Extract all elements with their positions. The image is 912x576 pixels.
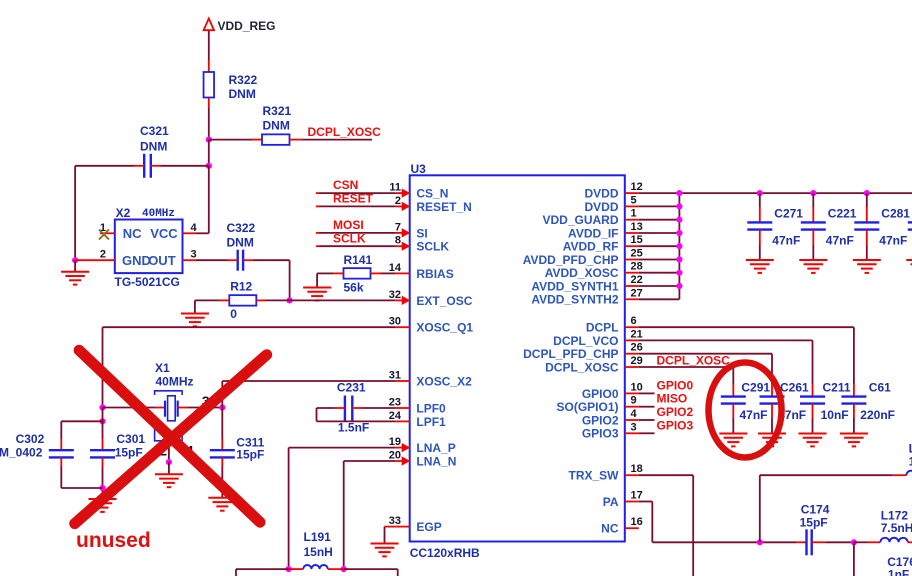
pin 20 LNA_N [389, 450, 457, 469]
svg-text:X1: X1 [155, 361, 170, 375]
svg-text:R322: R322 [229, 73, 258, 87]
capacitor C321 [144, 154, 151, 178]
capacitor C302 [49, 450, 74, 457]
svg-text:9: 9 [631, 395, 637, 407]
pin 24 LPF1 [389, 410, 446, 429]
svg-text:3: 3 [191, 249, 197, 261]
capacitor C311 [210, 450, 235, 457]
svg-text:OUT: OUT [148, 253, 176, 268]
pin 31 XOSC_X2 [389, 370, 472, 389]
svg-text:LPF1: LPF1 [416, 415, 446, 429]
svg-text:220nF: 220nF [860, 408, 895, 422]
node junction bus 12 [676, 190, 682, 196]
pin 15 AVDD_RF [563, 234, 643, 253]
svg-text:C211: C211 [823, 380, 851, 394]
wire C231 left loop to LPF1 [335, 407, 345, 409]
node junction X1 pin3 [219, 404, 225, 410]
capacitor C174 [807, 529, 812, 555]
op-amp U3 body CC120xRHB [410, 175, 625, 541]
ground under C291 [719, 434, 747, 447]
svg-text:XOSC_X2: XOSC_X2 [416, 374, 472, 388]
wire AVDD pin row 27 [639, 298, 680, 300]
wire C301 top [102, 408, 104, 440]
svg-text:C302: C302 [16, 432, 45, 446]
svg-text:DNM: DNM [227, 236, 254, 250]
svg-text:14: 14 [389, 262, 402, 274]
wire AVDD pin row 1 [639, 219, 680, 221]
wire R322 to junction [208, 98, 210, 109]
svg-text:29: 29 [631, 355, 643, 367]
svg-text:30: 30 [389, 316, 401, 328]
svg-text:4: 4 [191, 222, 198, 234]
node junction L172/C176 [851, 539, 857, 545]
wire XOSC_X2 net [221, 381, 223, 408]
ground under C211 [799, 434, 827, 447]
wire C322 to EXT_OSC junction [228, 259, 238, 261]
svg-text:15nH: 15nH [304, 545, 333, 559]
pin 7 SI [395, 221, 428, 240]
svg-text:LNA_P: LNA_P [416, 441, 455, 455]
svg-text:DVDD: DVDD [584, 200, 618, 214]
svg-text:13: 13 [631, 221, 643, 233]
wire DVDD bus horizontal [639, 192, 912, 194]
svg-text:VDD_REG: VDD_REG [218, 19, 276, 33]
svg-text:GPIO3: GPIO3 [657, 418, 694, 432]
pin 11 CS_N [389, 182, 448, 201]
svg-text:LPF0: LPF0 [416, 401, 446, 415]
pin 5 DVDD [584, 194, 638, 213]
capacitor C291 [721, 380, 771, 433]
svg-text:DCPL: DCPL [586, 321, 619, 335]
node junction bus 15 [676, 243, 682, 249]
node junction C321/VCC [206, 163, 212, 169]
svg-text:40MHz: 40MHz [142, 208, 175, 220]
svg-text:C271: C271 [774, 207, 803, 221]
pin 17 PA [603, 490, 643, 509]
svg-text:24: 24 [389, 410, 402, 422]
wire EGP to ground [385, 526, 396, 528]
wire LNA_P net [289, 447, 396, 449]
no-connect X on pin 1 [99, 230, 109, 240]
svg-text:NC: NC [123, 226, 142, 241]
wire C176 down [853, 542, 855, 576]
svg-text:26: 26 [631, 342, 643, 354]
svg-text:15pF: 15pF [236, 447, 264, 461]
wire C174 right [812, 541, 826, 543]
net stub GPIO3 [639, 432, 655, 434]
svg-text:3: 3 [631, 421, 637, 433]
pin 33 EGP [389, 515, 442, 534]
capacitor C231 [345, 396, 352, 421]
wire DCPL net y353 [639, 353, 772, 355]
node junction RF branch [757, 539, 763, 545]
pin 1 X2 NC [100, 232, 115, 234]
pin 26 DCPL_PFD_CHP [523, 342, 643, 361]
svg-text:TRX_SW: TRX_SW [568, 469, 619, 483]
net RESET wire [316, 192, 396, 207]
net CSN wire [316, 178, 396, 193]
net stub GPIO0 [639, 392, 655, 394]
svg-text:CC120xRHB: CC120xRHB [410, 546, 480, 560]
svg-text:15: 15 [631, 234, 643, 246]
wire R141 left to ground [333, 272, 344, 274]
wire VDD_REG to R322 [208, 31, 210, 60]
svg-text:10: 10 [631, 381, 643, 393]
svg-text:7.5nH: 7.5nH [881, 521, 912, 535]
svg-text:U3: U3 [411, 162, 427, 176]
wire AVDD pin row 25 [639, 259, 680, 261]
wire AVDD pin row 13 [639, 232, 680, 234]
pin 3 X2 OUT wire [183, 259, 197, 261]
svg-text:CSN: CSN [333, 178, 358, 192]
svg-text:AVDD_PFD_CHP: AVDD_PFD_CHP [523, 253, 619, 267]
svg-text:C61: C61 [869, 380, 891, 394]
svg-text:C281: C281 [881, 207, 910, 221]
wire EXT_OSC [290, 299, 396, 301]
svg-text:16: 16 [631, 516, 643, 528]
wire C301 bottom to ground [102, 457, 104, 467]
svg-text:0: 0 [230, 307, 237, 321]
svg-text:C291: C291 [741, 380, 770, 394]
svg-text:C301: C301 [116, 432, 145, 446]
svg-text:C321: C321 [140, 124, 169, 138]
svg-text:8: 8 [395, 235, 401, 247]
svg-text:DNM: DNM [140, 140, 167, 154]
svg-text:GPIO2: GPIO2 [582, 413, 619, 427]
svg-text:EGP: EGP [416, 520, 441, 534]
wire LPF0 to C231 [352, 407, 362, 409]
ground under C281 [853, 260, 881, 273]
svg-text:TG-5021CG: TG-5021CG [115, 275, 180, 289]
svg-text:L191: L191 [304, 530, 332, 544]
wire X1 left [103, 407, 156, 409]
svg-text:R141: R141 [344, 253, 373, 267]
svg-text:XOSC_Q1: XOSC_Q1 [416, 321, 473, 335]
svg-text:GPIO0: GPIO0 [582, 387, 619, 401]
svg-text:32: 32 [389, 289, 401, 301]
svg-text:PA: PA [603, 495, 619, 509]
capacitor C221 [801, 190, 857, 260]
net MOSI wire [316, 218, 396, 233]
capacitor C2x partial at right edge [908, 222, 912, 229]
oscillator X2 body [115, 220, 183, 274]
net stub MISO [639, 406, 655, 408]
pin 3 GPIO3 [582, 421, 639, 440]
svg-text:R321: R321 [263, 104, 292, 118]
svg-text:L17: L17 [909, 442, 912, 456]
wire RF branch up [759, 475, 761, 542]
wire C311 top [221, 408, 223, 440]
node junction bus 28 [676, 270, 682, 276]
svg-text:6: 6 [631, 315, 637, 327]
wire PA net [639, 501, 653, 503]
pin 28 AVDD_XOSC [545, 261, 643, 280]
svg-text:5: 5 [631, 194, 637, 206]
wire XOSC_Q1 net [103, 326, 396, 328]
net SCLK wire [316, 231, 396, 246]
wire DCPL net y340 [639, 339, 813, 341]
unused cross mark X [75, 350, 267, 523]
highlight ellipse around C291 [709, 363, 782, 458]
svg-text:RESET: RESET [333, 192, 374, 206]
pin 18 TRX_SW [568, 463, 642, 482]
svg-text:CS_N: CS_N [416, 187, 448, 201]
svg-text:1nF: 1nF [888, 567, 909, 576]
svg-text:AVDD_RF: AVDD_RF [563, 240, 619, 254]
pin 13 AVDD_IF [568, 221, 643, 240]
svg-text:10nF: 10nF [821, 408, 849, 422]
wire C321 right [151, 165, 161, 167]
svg-text:19: 19 [389, 436, 401, 448]
svg-text:C261: C261 [780, 380, 809, 394]
wire X1 right [178, 407, 188, 409]
ground under X1 [155, 474, 183, 487]
pin 16 NC [601, 516, 643, 535]
ground under C301 [89, 499, 117, 512]
wire AVDD pin row 15 [639, 245, 680, 247]
node junction X2 GND [72, 257, 78, 263]
pin 25 AVDD_PFD_CHP [523, 248, 643, 267]
svg-text:AVDD_IF: AVDD_IF [568, 226, 618, 240]
pin 32 EXT_OSC [389, 289, 473, 308]
crystal X1 [155, 391, 183, 441]
svg-text:31: 31 [389, 370, 401, 382]
svg-text:AVDD_SYNTH1: AVDD_SYNTH1 [531, 279, 618, 293]
capacitor C61 [841, 380, 895, 433]
wire R12 right to junction [256, 299, 266, 301]
resistor R12 [229, 295, 256, 306]
power symbol VDD_REG [204, 19, 214, 31]
svg-text:GND: GND [122, 253, 151, 268]
svg-text:DNM: DNM [263, 119, 290, 133]
svg-text:AVDD_XOSC: AVDD_XOSC [545, 266, 619, 280]
wire junction to R321 [209, 139, 252, 141]
wire AVDD pin row 28 [639, 272, 680, 274]
wire junction to ground [74, 260, 76, 272]
svg-text:VDD_GUARD: VDD_GUARD [542, 213, 618, 227]
svg-text:C174: C174 [801, 503, 830, 517]
node junction R321/R322 [206, 137, 212, 143]
ground under EGP [371, 544, 399, 557]
pin 6 DCPL [586, 315, 639, 334]
ground partial at right edge [906, 260, 912, 273]
svg-text:2: 2 [395, 195, 401, 207]
capacitor C301 [90, 450, 115, 457]
ground under R141 [303, 288, 331, 301]
node junction X1 pin1 [99, 404, 105, 410]
wire AVDD pin row 22 [639, 285, 680, 287]
svg-text:56k: 56k [344, 281, 364, 295]
svg-text:7: 7 [395, 221, 401, 233]
svg-text:GPIO0: GPIO0 [657, 378, 694, 392]
svg-text:SM_0402: SM_0402 [0, 446, 43, 460]
svg-text:VCC: VCC [150, 226, 178, 241]
svg-text:4: 4 [631, 408, 638, 420]
svg-text:40MHz: 40MHz [156, 375, 194, 389]
inductor L172 [854, 541, 868, 543]
ground under C261 [758, 434, 786, 447]
svg-text:C231: C231 [337, 381, 366, 395]
wire AVDD bus vertical [678, 193, 680, 299]
wire AVDD pin row 5 [639, 205, 680, 207]
capacitor C261 [760, 380, 810, 433]
svg-text:GPIO2: GPIO2 [657, 405, 694, 419]
svg-text:RBIAS: RBIAS [416, 267, 453, 281]
pin 19 LNA_P [389, 436, 456, 455]
resistor R141 [344, 268, 371, 279]
capacitor C281 [854, 190, 910, 260]
wire RF top to L1 edge [760, 474, 893, 476]
svg-text:GPIO3: GPIO3 [582, 427, 619, 441]
node junction bus 1 [676, 217, 682, 223]
svg-text:47nF: 47nF [826, 234, 854, 248]
pin 10 GPIO0 [582, 381, 643, 400]
node junction bus 25 [676, 256, 682, 262]
node junction C302 branch [99, 418, 105, 424]
svg-text:DCPL_XOSC: DCPL_XOSC [545, 360, 619, 374]
ground under R12 [181, 314, 209, 327]
svg-text:47nF: 47nF [740, 408, 768, 422]
svg-text:AVDD_SYNTH2: AVDD_SYNTH2 [531, 293, 618, 307]
svg-text:23: 23 [389, 397, 401, 409]
svg-text:47nF: 47nF [772, 234, 800, 248]
pin 4 GPIO2 [582, 408, 639, 427]
wire VCC up to C321 node [208, 166, 210, 234]
svg-text:C221: C221 [828, 207, 857, 221]
svg-text:17: 17 [631, 490, 643, 502]
pin 1 VDD_GUARD [542, 208, 638, 227]
svg-text:2: 2 [100, 249, 106, 261]
svg-text:21: 21 [631, 328, 643, 340]
pin 23 LPF0 [389, 397, 446, 416]
capacitor C271 [747, 190, 803, 260]
ground under C61 [840, 434, 868, 447]
svg-text:27: 27 [631, 287, 643, 299]
svg-text:DCPL_XOSC: DCPL_XOSC [657, 353, 731, 367]
ground under C271 [746, 260, 774, 273]
wire C302 bottom branch [60, 457, 62, 467]
node junction bus 13 [676, 230, 682, 236]
svg-text:SCLK: SCLK [416, 240, 449, 254]
pin 2 RESET_N [395, 195, 472, 214]
pin 4 X2 VCC wire [183, 232, 197, 234]
svg-text:15pF: 15pF [800, 516, 828, 530]
svg-text:MISO: MISO [657, 392, 688, 406]
svg-text:11: 11 [389, 182, 401, 194]
capacitor C211 [800, 380, 851, 433]
svg-text:47nF: 47nF [879, 234, 907, 248]
svg-text:C322: C322 [227, 221, 256, 235]
svg-text:28: 28 [631, 261, 643, 273]
svg-text:18: 18 [631, 463, 643, 475]
wire R321 to DCPL_XOSC label [290, 139, 302, 141]
svg-text:EXT_OSC: EXT_OSC [416, 294, 472, 308]
svg-text:X2: X2 [116, 206, 131, 220]
svg-text:33: 33 [389, 515, 401, 527]
svg-text:R12: R12 [230, 280, 252, 294]
pin 8 SCLK [395, 235, 450, 254]
svg-text:SO(GPIO1): SO(GPIO1) [556, 400, 618, 414]
pin 2 X2 GND wire [75, 259, 115, 261]
wire R12 left to ground [219, 299, 229, 301]
svg-text:SI: SI [416, 226, 427, 240]
wire junction down to C321 node [208, 140, 210, 166]
pin 21 DCPL_VCO [553, 328, 643, 347]
capacitor C322 [238, 250, 243, 271]
pin 12 DVDD [584, 181, 642, 200]
pin 30 XOSC_Q1 [389, 316, 474, 335]
wire C321 left to ground rail [134, 165, 144, 167]
svg-text:unused: unused [76, 529, 151, 552]
svg-text:22: 22 [631, 274, 643, 286]
wire C302 top branch [61, 420, 102, 422]
resistor R322 [204, 72, 215, 98]
ground under X2 GND [61, 272, 89, 285]
svg-text:DNM: DNM [229, 87, 256, 101]
wire L191 right [328, 568, 344, 570]
pin 27 AVDD_SYNTH2 [531, 287, 642, 306]
svg-text:25: 25 [631, 248, 643, 260]
wire DCPL net y367 [639, 366, 734, 368]
svg-text:1: 1 [631, 208, 637, 220]
wire R141 to RBIAS [371, 272, 382, 274]
pin 9 SO(GPIO1) [556, 395, 638, 414]
wire C311 bottom to ground [221, 457, 223, 467]
node junction L191 right [341, 566, 347, 572]
svg-text:DVDD: DVDD [584, 187, 618, 201]
inductor L1 partial at right edge [907, 471, 912, 476]
svg-text:12: 12 [631, 181, 643, 193]
pin 14 RBIAS [389, 262, 454, 281]
node junction L191 left [286, 566, 292, 572]
svg-text:DCPL_PFD_CHP: DCPL_PFD_CHP [523, 347, 618, 361]
wire TRX_SW net [639, 474, 693, 476]
net stub GPIO2 [639, 419, 655, 421]
pin 29 DCPL_XOSC [545, 355, 643, 374]
pin 22 AVDD_SYNTH1 [531, 274, 642, 293]
svg-text:20: 20 [389, 450, 401, 462]
node junction bus 22 [676, 283, 682, 289]
svg-text:15n: 15n [909, 455, 912, 469]
node junction X1 case [166, 459, 172, 465]
svg-text:SCLK: SCLK [333, 231, 366, 245]
wire LNA_N net [344, 460, 396, 462]
svg-text:DCPL_VCO: DCPL_VCO [553, 334, 618, 348]
ground under C311 [208, 498, 236, 511]
svg-text:LNA_N: LNA_N [416, 454, 456, 468]
node junction EXT_OSC/R12 [287, 297, 293, 303]
wire DCPL net y327 [639, 326, 854, 328]
ground under C221 [799, 260, 827, 273]
svg-text:NC: NC [601, 522, 619, 536]
inductor L191 [303, 565, 328, 569]
svg-text:1.5nF: 1.5nF [338, 421, 369, 435]
svg-text:DCPL_XOSC: DCPL_XOSC [308, 125, 382, 139]
svg-text:RESET_N: RESET_N [416, 200, 471, 214]
svg-text:MOSI: MOSI [333, 218, 364, 232]
resistor R321 [262, 134, 290, 145]
wire L191 left [289, 568, 304, 570]
svg-text:15pF: 15pF [115, 446, 143, 460]
node junction bus 5 [676, 203, 682, 209]
